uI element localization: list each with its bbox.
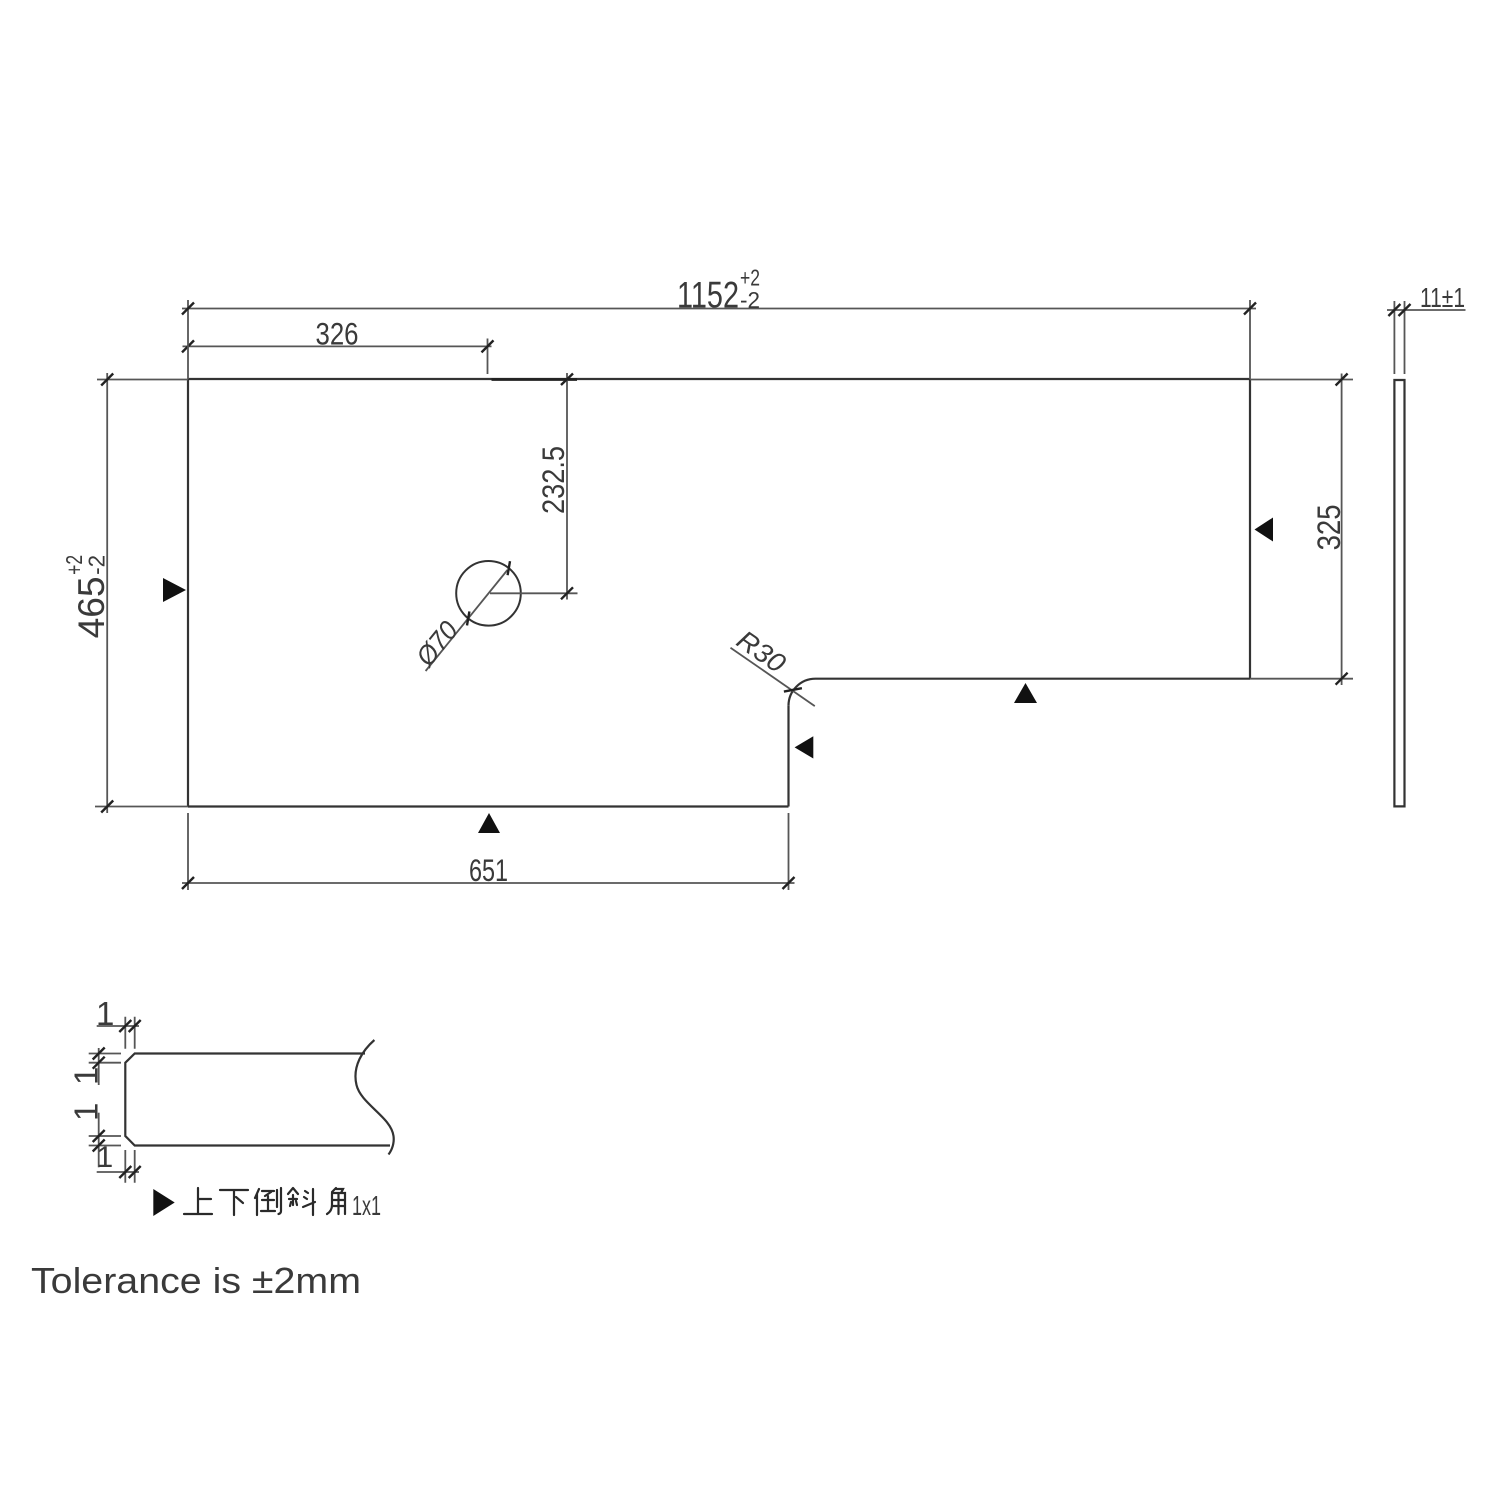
dim 326 tick right xyxy=(482,340,494,352)
dim 1152 line xyxy=(182,308,1256,310)
countertop notch vertical edge xyxy=(787,706,789,807)
countertop top edge xyxy=(188,378,1250,380)
hole diameter line xyxy=(426,570,508,671)
note CJK char dao xyxy=(255,1188,281,1215)
svg-text:R30: R30 xyxy=(731,624,791,678)
dim 232.5 line xyxy=(566,373,568,600)
note CJK char shang xyxy=(184,1188,212,1214)
detail bottom chamfer height dim ext lines xyxy=(89,1136,121,1146)
dim 1152 ext right xyxy=(1249,300,1251,379)
dim 1152 tick right xyxy=(1244,303,1256,315)
dim 465 line xyxy=(106,373,108,813)
dim 325 ext bottom xyxy=(1250,678,1353,680)
svg-text:651: 651 xyxy=(469,852,508,888)
dim 232.5 leader stub xyxy=(490,592,578,594)
dim 651 ext left xyxy=(187,813,189,890)
detail break S-curve xyxy=(355,1040,393,1155)
detail outline with chamfers xyxy=(125,1054,390,1146)
detail bottom chamfer width dim ext lines xyxy=(125,1150,134,1183)
corner arc R30 xyxy=(789,679,816,706)
dim 465 tick bottom xyxy=(101,801,113,813)
svg-text:325: 325 xyxy=(1311,504,1347,550)
chamfer triangle notch horizontal edge xyxy=(1014,683,1037,703)
dim 465 ext bottom xyxy=(95,806,188,808)
dim 465 text with tolerance xyxy=(61,555,112,639)
detail top chamfer height ticks xyxy=(93,1048,105,1069)
note CJK char jiao xyxy=(327,1188,345,1214)
detail bottom chamfer height dim line xyxy=(98,1113,100,1168)
detail top chamfer width dim line xyxy=(97,1025,139,1027)
countertop bottom edge xyxy=(188,805,789,807)
chamfer triangle left edge xyxy=(163,578,186,602)
dim 325 tick top xyxy=(1336,374,1348,386)
R30 leader line xyxy=(731,648,815,706)
svg-text:1152: 1152 xyxy=(677,275,739,316)
top edge overlap segment (double-drawn) xyxy=(492,378,578,381)
side view dim 11 tick right xyxy=(1399,304,1411,316)
countertop right edge xyxy=(1249,379,1251,679)
dim 465 tick top xyxy=(101,374,113,386)
detail top chamfer width dim ext lines xyxy=(125,1017,134,1049)
svg-text:1: 1 xyxy=(68,1103,105,1121)
dim 1152 ext left xyxy=(187,300,189,379)
side view dim 11 line xyxy=(1387,309,1466,311)
svg-text:232.5: 232.5 xyxy=(535,446,571,514)
chamfer triangle bottom edge xyxy=(478,813,500,833)
countertop left edge xyxy=(187,379,189,807)
side view dim 11 tick left xyxy=(1388,304,1400,316)
svg-text:-2: -2 xyxy=(740,287,760,313)
svg-text:1: 1 xyxy=(68,1067,105,1085)
side view thin rectangle xyxy=(1394,380,1404,806)
detail bottom chamfer height ticks xyxy=(93,1130,105,1152)
svg-text:1: 1 xyxy=(96,995,114,1032)
svg-text:-2: -2 xyxy=(84,555,110,575)
dim 232.5 tick bottom xyxy=(561,587,573,599)
svg-text:Tolerance is ±2mm: Tolerance is ±2mm xyxy=(31,1260,361,1301)
side view dim 11 ext left xyxy=(1393,301,1395,374)
svg-text:465: 465 xyxy=(71,576,112,638)
dim 326 tick left xyxy=(182,340,194,352)
chamfer triangle right edge xyxy=(1255,518,1274,542)
dim 326 ext right xyxy=(487,339,489,375)
detail bottom chamfer width ticks xyxy=(119,1166,140,1178)
dim 325 tick bottom xyxy=(1336,673,1348,685)
dim 325 line xyxy=(1341,374,1343,686)
note triangle marker xyxy=(153,1189,174,1216)
dim 325 ext top xyxy=(1250,379,1353,381)
svg-text:1x1: 1x1 xyxy=(352,1190,381,1221)
dim 232.5 tick top xyxy=(561,374,573,386)
dim 1152 tick left xyxy=(182,303,194,315)
svg-text:11±1: 11±1 xyxy=(1420,282,1465,313)
dim 326 line xyxy=(183,345,492,347)
dim 651 tick left xyxy=(182,877,194,889)
side view dim 11 ext right xyxy=(1404,301,1406,374)
note CJK char xie xyxy=(288,1188,315,1215)
hole diameter tick upper xyxy=(508,561,510,575)
countertop notch horizontal edge xyxy=(816,678,1251,680)
faucet hole circle xyxy=(456,561,521,626)
detail bottom chamfer width dim line xyxy=(97,1171,139,1173)
svg-text:1: 1 xyxy=(97,1141,114,1174)
chamfer triangle notch vertical edge xyxy=(795,736,814,758)
svg-text:Ø70: Ø70 xyxy=(410,616,464,673)
note CJK char xia xyxy=(220,1190,248,1215)
dim 465 ext top xyxy=(97,379,188,381)
dim 651 line xyxy=(182,882,795,884)
dim 651 tick right xyxy=(783,877,795,889)
detail top chamfer width ticks xyxy=(119,1020,140,1032)
R30 leader tick xyxy=(784,688,802,691)
hole diameter tick lower xyxy=(467,611,469,625)
detail top chamfer height dim line xyxy=(98,1048,100,1085)
dim 651 ext right xyxy=(788,813,790,890)
svg-text:326: 326 xyxy=(316,316,359,352)
detail top chamfer height dim ext lines xyxy=(89,1054,121,1063)
